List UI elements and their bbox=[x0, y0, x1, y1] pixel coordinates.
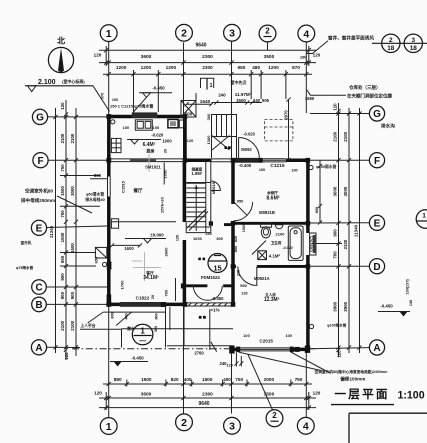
svg-text:室外机: 室外机 bbox=[21, 240, 32, 245]
svg-text:11340: 11340 bbox=[354, 224, 359, 237]
axis bubble 2 bottom bbox=[176, 414, 193, 431]
svg-text:1700: 1700 bbox=[120, 280, 125, 290]
wall A south bedroom bbox=[230, 348, 238, 352]
axis bubble 2 top bbox=[176, 24, 193, 41]
svg-text:230: 230 bbox=[205, 232, 211, 236]
svg-text:100: 100 bbox=[291, 169, 297, 173]
svg-text:4.1M²: 4.1M² bbox=[269, 254, 281, 259]
axis line E horizontal bbox=[47, 226, 108, 228]
svg-text:3900: 3900 bbox=[343, 301, 348, 311]
svg-text:120: 120 bbox=[241, 292, 247, 296]
axis line 3 vertical bbox=[231, 41, 233, 161]
svg-text:-0.450: -0.450 bbox=[212, 296, 225, 301]
svg-text:750: 750 bbox=[60, 210, 65, 218]
svg-text:18: 18 bbox=[410, 45, 418, 52]
right dimension line inner bbox=[338, 103, 340, 357]
svg-text:1600: 1600 bbox=[124, 246, 134, 251]
svg-text:2100: 2100 bbox=[70, 133, 75, 143]
svg-text:3000: 3000 bbox=[333, 186, 338, 196]
svg-text:650: 650 bbox=[60, 255, 65, 263]
top dimension line row2 3600/2300/3500 bbox=[99, 62, 316, 64]
svg-text:E: E bbox=[36, 224, 43, 235]
axis bubble A left bbox=[31, 340, 46, 355]
svg-text:1: 1 bbox=[106, 28, 112, 40]
north arrow bbox=[48, 47, 73, 72]
svg-text:M0921B: M0921B bbox=[259, 210, 275, 215]
svg-text:3000: 3000 bbox=[70, 186, 75, 196]
kitchen stove dark box bbox=[168, 119, 178, 127]
left dimension line mid bbox=[65, 100, 67, 360]
svg-text:3: 3 bbox=[412, 37, 416, 44]
svg-text:B: B bbox=[35, 300, 42, 311]
svg-text:2760: 2760 bbox=[194, 351, 204, 356]
axis bubble G left bbox=[32, 109, 47, 124]
svg-text:1.9M²: 1.9M² bbox=[192, 171, 203, 176]
svg-text:120: 120 bbox=[313, 53, 321, 58]
axis bubble 1 top bbox=[100, 25, 117, 42]
svg-text:100: 100 bbox=[243, 333, 250, 338]
svg-text:1500: 1500 bbox=[236, 98, 246, 103]
closet top line bbox=[186, 182, 211, 184]
svg-text:在天棚门洞部位定位膜: 在天棚门洞部位定位膜 bbox=[347, 93, 392, 100]
dim 240 ticks below C2015 bbox=[235, 353, 237, 367]
svg-text:2: 2 bbox=[181, 28, 187, 40]
svg-text:800: 800 bbox=[233, 245, 238, 252]
hatch block west of steps bbox=[181, 101, 196, 118]
svg-text:3600: 3600 bbox=[141, 54, 152, 60]
rain pipe west top bbox=[111, 120, 115, 124]
axis bubble B left bbox=[32, 297, 47, 312]
rain pipe east bottom bbox=[309, 324, 313, 328]
svg-text:120: 120 bbox=[64, 352, 69, 360]
svg-text:800: 800 bbox=[111, 312, 115, 318]
right dim extension line bbox=[312, 243, 342, 245]
svg-text:1200: 1200 bbox=[166, 65, 177, 70]
svg-text:C1215: C1215 bbox=[270, 163, 284, 169]
svg-text:2970: 2970 bbox=[284, 110, 289, 120]
rain pipe east top bbox=[309, 165, 313, 169]
svg-text:1500: 1500 bbox=[60, 232, 65, 242]
column blobs bbox=[106, 114, 111, 119]
svg-text:240: 240 bbox=[236, 270, 240, 276]
svg-text:1200: 1200 bbox=[141, 65, 152, 70]
wall D bedroom top bbox=[231, 265, 236, 268]
svg-text:3: 3 bbox=[229, 28, 235, 40]
svg-text:11340: 11340 bbox=[49, 225, 54, 238]
axis line 1 vertical bbox=[108, 42, 110, 117]
svg-text:M0619: M0619 bbox=[211, 181, 216, 194]
svg-text:1000: 1000 bbox=[162, 139, 172, 144]
svg-text:400: 400 bbox=[124, 313, 128, 319]
svg-text:上人平台: 上人平台 bbox=[80, 323, 95, 328]
wall axis2 kitchen east bbox=[183, 115, 187, 162]
svg-text:870: 870 bbox=[292, 65, 300, 70]
svg-text:120: 120 bbox=[313, 391, 321, 396]
wall east exterior bbox=[306, 159, 310, 233]
svg-text:偏移100mm: 偏移100mm bbox=[340, 375, 365, 382]
svg-text:4: 4 bbox=[303, 421, 309, 433]
leader to aux axis circle bottom bbox=[248, 355, 273, 410]
svg-text:2100: 2100 bbox=[343, 239, 348, 249]
svg-text:排水母线40: 排水母线40 bbox=[85, 197, 104, 202]
wall west exterior bbox=[107, 115, 111, 177]
svg-text:1500: 1500 bbox=[60, 186, 65, 196]
bottom dimension line row1 bbox=[103, 383, 312, 385]
svg-text:11.97M²: 11.97M² bbox=[235, 92, 252, 97]
svg-text:950: 950 bbox=[240, 283, 247, 288]
svg-text:1900: 1900 bbox=[141, 377, 152, 382]
svg-text:-0.400: -0.400 bbox=[239, 163, 252, 168]
svg-text:2100: 2100 bbox=[60, 133, 65, 143]
svg-text:2100: 2100 bbox=[70, 320, 75, 330]
svg-text:M092: M092 bbox=[241, 147, 252, 152]
bay window C0915 east bbox=[310, 233, 316, 255]
svg-text:主人房: 主人房 bbox=[265, 292, 276, 297]
door M0921B arc bbox=[234, 202, 253, 221]
leader top-left to window bbox=[133, 97, 147, 112]
svg-text:120: 120 bbox=[226, 363, 233, 368]
dim porch 240/1500/240 bbox=[212, 102, 263, 104]
svg-text:20: 20 bbox=[151, 295, 155, 299]
svg-text:750: 750 bbox=[235, 377, 243, 382]
svg-text:3900: 3900 bbox=[333, 301, 338, 311]
svg-text:120: 120 bbox=[60, 102, 65, 110]
svg-text:900: 900 bbox=[70, 291, 75, 299]
svg-text:排水沟: 排水沟 bbox=[381, 123, 395, 130]
top dimension line row1 9640 bbox=[99, 49, 316, 51]
left dim extension lines bbox=[60, 175, 100, 177]
staircase treads bbox=[186, 182, 205, 184]
axis line G horizontal bbox=[48, 116, 108, 118]
svg-text:950: 950 bbox=[237, 199, 244, 204]
detail circle 3-18 bbox=[404, 34, 422, 52]
axis bubble 3 top bbox=[224, 24, 241, 41]
svg-text:2100: 2100 bbox=[343, 131, 348, 141]
axis bubble C left bbox=[32, 280, 47, 295]
svg-text:2100: 2100 bbox=[276, 232, 286, 237]
bottom dim extension lines bbox=[126, 380, 128, 387]
svg-text:750: 750 bbox=[295, 377, 303, 382]
svg-text:100: 100 bbox=[112, 98, 118, 102]
wall hall bottom FDM bbox=[186, 284, 207, 287]
porch cross bracing bbox=[212, 136, 230, 151]
svg-text:3: 3 bbox=[229, 421, 235, 433]
svg-text:φ75雨水管: φ75雨水管 bbox=[16, 265, 34, 270]
svg-text:1300: 1300 bbox=[206, 135, 211, 145]
svg-text:240: 240 bbox=[218, 93, 226, 98]
svg-text:900: 900 bbox=[154, 313, 158, 319]
svg-text:厨房: 厨房 bbox=[147, 148, 155, 154]
svg-text:950: 950 bbox=[237, 65, 245, 70]
dim 1640 porch bbox=[187, 103, 212, 105]
bottom dimension line row2 bbox=[99, 397, 316, 399]
svg-text:E: E bbox=[374, 219, 381, 230]
stair arrow bbox=[195, 185, 197, 231]
svg-text:2: 2 bbox=[181, 417, 187, 429]
svg-text:6.4M²: 6.4M² bbox=[143, 142, 156, 148]
svg-text:1:100: 1:100 bbox=[398, 390, 425, 402]
svg-text:1: 1 bbox=[210, 83, 213, 89]
svg-text:15: 15 bbox=[213, 264, 221, 273]
svg-text:300: 300 bbox=[206, 113, 211, 120]
svg-text:1200: 1200 bbox=[268, 65, 279, 70]
window C2015 end posts bbox=[236, 347, 240, 353]
svg-text:650: 650 bbox=[94, 256, 99, 263]
wall stair west black band bbox=[183, 162, 187, 222]
svg-text:820: 820 bbox=[171, 377, 179, 382]
svg-text:A: A bbox=[35, 343, 42, 354]
west platform 上人平台 bbox=[80, 328, 122, 330]
left dimension line inner bbox=[75, 108, 77, 356]
bottom dimension line row3 9640 bbox=[99, 407, 316, 409]
svg-text:905: 905 bbox=[262, 98, 270, 103]
aux axis bubble 2 bottom bbox=[266, 410, 283, 427]
svg-text:餐厅: 餐厅 bbox=[133, 187, 143, 194]
level mark south filled bbox=[114, 362, 122, 367]
svg-text:1030: 1030 bbox=[193, 236, 203, 241]
svg-text:9640: 9640 bbox=[195, 43, 206, 49]
svg-text:750: 750 bbox=[60, 164, 65, 172]
door M0921A arc bbox=[238, 266, 257, 285]
detail bubble 15 bbox=[208, 254, 227, 273]
axis bubble 4 top bbox=[298, 25, 315, 42]
svg-text:3500: 3500 bbox=[264, 54, 275, 60]
svg-text:1060: 1060 bbox=[242, 224, 246, 232]
svg-text:1: 1 bbox=[106, 421, 112, 433]
svg-text:800: 800 bbox=[217, 237, 223, 241]
level mark right filled bbox=[400, 312, 408, 317]
svg-text:仓库处（三层）: 仓库处（三层） bbox=[348, 84, 381, 91]
axis bubble A right bbox=[369, 340, 384, 355]
svg-text:1200: 1200 bbox=[116, 65, 127, 70]
svg-text:780: 780 bbox=[164, 290, 168, 296]
svg-text:F: F bbox=[37, 156, 43, 167]
axis line D horizontal right bbox=[310, 265, 370, 267]
axis line B horizontal left bbox=[47, 303, 108, 305]
axis line 2 vertical bbox=[183, 43, 185, 161]
dim 1600 living bbox=[112, 244, 140, 246]
leader C2015 to note bbox=[239, 352, 321, 370]
svg-text:1050: 1050 bbox=[163, 169, 168, 179]
svg-text:880: 880 bbox=[114, 377, 122, 382]
svg-text:空调室外机80(踏中心用意宽地绝距)2400mm: 空调室外机80(踏中心用意宽地绝距)2400mm bbox=[315, 369, 389, 374]
top dimension line row3 1200s bbox=[103, 73, 312, 75]
svg-text:SM1021: SM1021 bbox=[145, 165, 161, 170]
svg-text:储藏室: 储藏室 bbox=[191, 167, 203, 172]
svg-text:M0921A: M0921A bbox=[254, 276, 270, 281]
detail circle 2-18 bbox=[372, 42, 427, 44]
svg-text:3000: 3000 bbox=[343, 186, 348, 196]
svg-text:100: 100 bbox=[259, 168, 265, 172]
window C1215 north dark band bbox=[132, 112, 158, 118]
svg-text:G: G bbox=[373, 109, 381, 120]
svg-text:(室中心标高): (室中心标高) bbox=[62, 78, 85, 84]
svg-text:800: 800 bbox=[315, 207, 319, 213]
svg-text:—: — bbox=[139, 338, 146, 345]
svg-text:100: 100 bbox=[285, 333, 292, 338]
level mark kitchen bbox=[131, 140, 139, 145]
svg-text:窗井、窗井盖平面诱风: 窗井、窗井盖平面诱风 bbox=[328, 35, 374, 42]
svg-text:3600: 3600 bbox=[141, 392, 152, 398]
svg-text:φ50落水管: φ50落水管 bbox=[86, 192, 105, 197]
level mark living bbox=[144, 239, 152, 244]
svg-text:100: 100 bbox=[153, 125, 160, 130]
svg-text:120: 120 bbox=[337, 350, 342, 358]
axis line F horizontal bbox=[48, 159, 107, 161]
axis line C horizontal left bbox=[47, 286, 108, 288]
svg-text:18: 18 bbox=[387, 45, 395, 52]
canopy dashed outline above porch bbox=[265, 120, 293, 141]
svg-text:34.1M²: 34.1M² bbox=[143, 275, 159, 281]
svg-text:2300: 2300 bbox=[202, 65, 213, 70]
svg-text:F: F bbox=[374, 156, 380, 167]
fridge grid box bbox=[111, 138, 121, 152]
svg-text:±0.000: ±0.000 bbox=[150, 232, 164, 237]
svg-text:570: 570 bbox=[100, 92, 105, 99]
svg-text:150 1 C1215 φ75雨水管: 150 1 C1215 φ75雨水管 bbox=[110, 103, 153, 109]
south yard side lines mid bay bbox=[165, 307, 167, 348]
wall F main south-of-porch bbox=[183, 159, 211, 163]
svg-text:130(137): 130(137) bbox=[406, 279, 410, 295]
svg-text:2000: 2000 bbox=[264, 377, 275, 382]
svg-text:2: 2 bbox=[265, 27, 270, 36]
svg-text:100: 100 bbox=[123, 125, 130, 130]
axis bubble G right bbox=[369, 106, 384, 121]
svg-text:300: 300 bbox=[154, 326, 158, 332]
right dimension line mid bbox=[348, 108, 350, 353]
title block frame corner bbox=[349, 412, 427, 414]
svg-text:1500: 1500 bbox=[70, 243, 75, 253]
left dimension line outer 11340 bbox=[55, 108, 57, 353]
svg-text:1640: 1640 bbox=[200, 99, 211, 104]
svg-text:2300: 2300 bbox=[202, 392, 213, 398]
svg-text:140: 140 bbox=[409, 300, 413, 306]
svg-text:820: 820 bbox=[234, 236, 238, 242]
detail bubble right edge bbox=[416, 210, 427, 229]
svg-text:北: 北 bbox=[57, 36, 65, 46]
wall B south of living C1822 bbox=[107, 303, 185, 307]
svg-text:A: A bbox=[373, 343, 380, 354]
svg-text:1: 1 bbox=[140, 327, 145, 336]
window C2015 south triple line bbox=[238, 347, 292, 349]
svg-text:240: 240 bbox=[253, 98, 261, 103]
svg-text:900: 900 bbox=[60, 291, 65, 299]
svg-text:120: 120 bbox=[94, 391, 102, 396]
svg-text:空调室外机80: 空调室外机80 bbox=[25, 188, 54, 195]
axis bubble 1 bottom bbox=[100, 418, 117, 435]
svg-text:1680: 1680 bbox=[305, 96, 315, 101]
svg-text:-0.020: -0.020 bbox=[282, 246, 292, 250]
axis bubble F right bbox=[369, 153, 384, 168]
axis line A dash-dot horizontal bbox=[47, 346, 81, 348]
svg-text:500: 500 bbox=[185, 112, 193, 117]
svg-text:180: 180 bbox=[300, 55, 307, 60]
svg-text:C: C bbox=[35, 283, 42, 294]
svg-text:480: 480 bbox=[252, 65, 260, 70]
svg-text:900: 900 bbox=[60, 273, 65, 281]
svg-text:-0.020: -0.020 bbox=[151, 133, 164, 138]
step flag bracket bbox=[201, 78, 214, 88]
wall F kitchen-dining sliding SM1021 bbox=[107, 158, 185, 160]
svg-text:2: 2 bbox=[272, 411, 277, 420]
window C1515 west double line bbox=[107, 177, 109, 197]
svg-text:C1515: C1515 bbox=[120, 180, 125, 193]
svg-text:排中母线250mm: 排中母线250mm bbox=[21, 197, 55, 204]
svg-text:C2015: C2015 bbox=[259, 339, 273, 344]
svg-text:2.100: 2.100 bbox=[38, 79, 56, 86]
kitchen sink counter bbox=[135, 120, 152, 130]
door M0619 closet arc bbox=[211, 181, 221, 191]
right dimension line outer 11340 bbox=[359, 108, 361, 353]
svg-text:卫生间: 卫生间 bbox=[271, 240, 282, 245]
door FDM1524 arc bbox=[193, 286, 222, 301]
svg-text:1: 1 bbox=[422, 213, 426, 220]
rain pipe west mid bbox=[102, 262, 106, 266]
svg-text:400: 400 bbox=[184, 377, 192, 382]
stair cut line bbox=[187, 209, 206, 228]
axis line 4 vertical bbox=[305, 43, 307, 114]
svg-text:2100: 2100 bbox=[60, 320, 65, 330]
svg-text:C0915凸: C0915凸 bbox=[308, 236, 314, 252]
svg-text:i=1%: i=1% bbox=[209, 308, 219, 313]
axis bubble E right bbox=[369, 215, 384, 230]
svg-text:-0.450: -0.450 bbox=[380, 304, 393, 309]
axis bubble 4 bottom bbox=[297, 417, 314, 434]
washer dark block bbox=[258, 251, 267, 260]
svg-text:客厅: 客厅 bbox=[145, 270, 154, 275]
bathtub bbox=[288, 226, 303, 260]
svg-text:400: 400 bbox=[223, 377, 231, 382]
svg-text:φ100雨水管: φ100雨水管 bbox=[327, 323, 347, 328]
svg-text:900: 900 bbox=[333, 229, 338, 237]
axis bubble 3 bottom bbox=[224, 417, 241, 434]
svg-text:一层平面: 一层平面 bbox=[335, 388, 390, 401]
svg-text:D: D bbox=[373, 262, 380, 273]
wall hall east axis3 bbox=[231, 159, 235, 204]
svg-text:120: 120 bbox=[176, 235, 180, 241]
axis bubble D right bbox=[369, 259, 384, 274]
top dim extension lines bbox=[133, 70, 135, 112]
wall E bathroom top bbox=[231, 222, 308, 225]
aux axis bubble 2 top bbox=[259, 25, 276, 42]
AC unit outside west bbox=[95, 247, 106, 258]
svg-text:G: G bbox=[36, 113, 44, 124]
svg-text:余侧厅: 余侧厅 bbox=[266, 190, 278, 195]
wall B mid bay hatched bbox=[185, 302, 233, 304]
axis bubble F left bbox=[33, 153, 48, 168]
svg-text:4: 4 bbox=[303, 28, 309, 40]
svg-text:120: 120 bbox=[187, 138, 194, 143]
svg-text:9640: 9640 bbox=[198, 401, 209, 407]
svg-text:C1822: C1822 bbox=[136, 295, 150, 300]
wash basin bbox=[275, 225, 283, 229]
svg-text:700: 700 bbox=[333, 251, 338, 259]
svg-text:120: 120 bbox=[333, 103, 338, 111]
svg-text:120: 120 bbox=[94, 53, 102, 58]
door M092 arc entry bbox=[238, 138, 240, 161]
svg-text:-0.020: -0.020 bbox=[243, 132, 256, 137]
svg-text:2600: 2600 bbox=[164, 247, 169, 257]
svg-text:8.6M²: 8.6M² bbox=[266, 196, 280, 202]
svg-text:2100: 2100 bbox=[333, 131, 338, 141]
axis bubble E left bbox=[31, 220, 46, 235]
svg-text:2: 2 bbox=[389, 37, 393, 44]
svg-text:2300: 2300 bbox=[202, 54, 213, 60]
svg-text:-0.450: -0.450 bbox=[131, 356, 144, 361]
svg-text:12.3M²: 12.3M² bbox=[264, 297, 280, 303]
entry steps north porch bbox=[212, 115, 237, 137]
svg-text:-0.450: -0.450 bbox=[152, 86, 165, 91]
